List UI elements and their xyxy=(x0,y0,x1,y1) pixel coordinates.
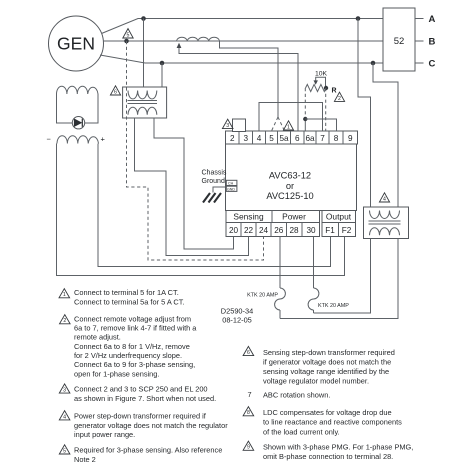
wire breaker stub A xyxy=(415,18,424,20)
node CH GND terminal boxes xyxy=(226,180,237,191)
svg-text:4: 4 xyxy=(63,414,66,420)
svg-text:6: 6 xyxy=(247,350,250,356)
triangle note1 list marker xyxy=(59,289,70,299)
transformer power step-down T2 xyxy=(364,207,409,239)
svg-text:28: 28 xyxy=(289,226,299,235)
wire chassis ground lead xyxy=(213,187,226,193)
svg-text:Note 2: Note 2 xyxy=(74,455,96,464)
wire C-phase feed to power transformer xyxy=(373,63,398,207)
svg-text:1: 1 xyxy=(63,292,66,298)
svg-text:6: 6 xyxy=(295,134,300,143)
wire transformer secondary right to terminal 26 bus xyxy=(280,239,398,319)
svg-text:Connect 6a to 9 for 3-phase se: Connect 6a to 9 for 3-phase sensing, xyxy=(74,360,195,369)
node junction 6a xyxy=(303,117,307,121)
svg-text:24: 24 xyxy=(259,226,269,235)
node A-power tap xyxy=(356,16,361,21)
wire breaker stub B xyxy=(415,40,424,42)
node C-sense tap xyxy=(160,61,165,66)
wire breaker stub C xyxy=(415,62,424,64)
svg-text:7: 7 xyxy=(248,390,252,399)
triangle note2 marker at R xyxy=(334,92,344,102)
svg-text:4: 4 xyxy=(257,134,262,143)
wire terminal 26 to fuse xyxy=(279,237,281,289)
svg-text:open for 1-phase sensing.: open for 1-phase sensing. xyxy=(74,369,159,378)
regulator section labels Sensing Power Output xyxy=(226,211,356,223)
triangle note1 marker at CT fork xyxy=(284,121,294,131)
triangle note4 marker at power transformer xyxy=(379,193,389,203)
svg-text:to line reactance and reactive: to line reactance and reactive component… xyxy=(263,418,402,427)
svg-text:R: R xyxy=(332,88,337,95)
exciter armature winding xyxy=(57,86,99,123)
svg-text:omit B-phase connection to ter: omit B-phase connection to terminal 28. xyxy=(263,452,393,461)
transformer CT on B phase xyxy=(177,37,220,41)
regulator output terminal strip F1 F2 xyxy=(322,223,356,237)
svg-text:KTK 20 AMP: KTK 20 AMP xyxy=(247,293,278,299)
svg-text:8: 8 xyxy=(334,134,339,143)
wire dashed pot left leg to 6a xyxy=(304,88,306,119)
triangle note8 list marker xyxy=(243,407,254,417)
svg-text:Ground: Ground xyxy=(202,178,225,185)
wire CT dashed fork to 5a xyxy=(278,117,285,131)
svg-text:Connect to terminal 5a for 5 A: Connect to terminal 5a for 5 A CT. xyxy=(74,298,185,307)
diode rotating rectifier xyxy=(72,117,84,129)
svg-text:Required for 3-phase sensing.: Required for 3-phase sensing. Also refer… xyxy=(74,445,222,454)
svg-text:AVC125-10: AVC125-10 xyxy=(266,191,313,201)
wire C-phase line xyxy=(100,55,383,63)
svg-text:GEN: GEN xyxy=(57,34,95,54)
triangle note3 list marker xyxy=(59,384,70,394)
wire A sensing lead xyxy=(143,19,145,88)
wire CT lead to terminal 6 xyxy=(179,47,298,132)
link shorting jumper terminals 2-3 xyxy=(233,119,246,132)
triangle note2 list marker xyxy=(60,315,71,325)
svg-text:9: 9 xyxy=(247,445,250,451)
svg-text:+: + xyxy=(101,135,106,144)
fuse F1 KTK 20 AMP xyxy=(275,288,286,310)
svg-text:Chassis: Chassis xyxy=(202,170,227,177)
svg-text:of the load current only.: of the load current only. xyxy=(263,427,340,436)
svg-text:Connect remote voltage adjust: Connect remote voltage adjust from xyxy=(74,314,191,323)
wire field plus to F1 xyxy=(98,144,331,267)
svg-text:A: A xyxy=(429,14,436,25)
wire transformer secondary left to terminal 30 bus xyxy=(314,239,371,314)
node C-power tap xyxy=(371,61,376,66)
svg-text:generator voltage does not mat: generator voltage does not match the reg… xyxy=(74,421,228,430)
svg-text:Output: Output xyxy=(326,212,352,222)
wire CT lead to terminal 5/5a xyxy=(220,41,279,117)
wire fuse to bus xyxy=(313,310,315,313)
fuse F2 KTK 20 AMP xyxy=(308,288,319,310)
svg-text:10K: 10K xyxy=(315,71,328,78)
wire C sensing lead xyxy=(161,63,163,87)
svg-text:30: 30 xyxy=(306,226,316,235)
svg-text:Sensing step-down transformer: Sensing step-down transformer required xyxy=(263,348,395,357)
svg-text:F2: F2 xyxy=(342,226,352,235)
svg-text:Sensing: Sensing xyxy=(233,212,264,222)
wire 6a to terminal 8 xyxy=(305,119,336,131)
regulator AVC63-12 main box xyxy=(226,144,357,211)
svg-text:voltage regulator model number: voltage regulator model number. xyxy=(263,377,369,386)
svg-text:D2590-34: D2590-34 xyxy=(221,307,253,316)
svg-text:6a: 6a xyxy=(305,134,315,143)
wire dashed pot right leg to 7 xyxy=(325,88,327,131)
svg-text:52: 52 xyxy=(394,36,405,47)
svg-text:input power range.: input power range. xyxy=(74,430,135,439)
wire A-phase line xyxy=(102,19,384,34)
svg-text:3: 3 xyxy=(63,388,66,394)
ground chassis symbol xyxy=(203,193,221,203)
regulator top terminal strip 2-9 xyxy=(226,131,358,144)
svg-text:Connect 2 and 3 to SCP 250 and: Connect 2 and 3 to SCP 250 and EL 200 xyxy=(74,385,208,394)
svg-text:08-12-05: 08-12-05 xyxy=(222,316,252,325)
transformer sensing step-down T1 xyxy=(123,87,167,118)
wire B-phase line xyxy=(103,40,383,42)
triangle note4 list marker xyxy=(59,411,70,421)
svg-text:22: 22 xyxy=(244,226,254,235)
exciter field winding xyxy=(57,136,99,144)
svg-text:7: 7 xyxy=(320,134,325,143)
node B-sense tap xyxy=(124,39,129,44)
triangle note6 list marker xyxy=(243,346,254,356)
svg-text:GND: GND xyxy=(227,188,235,192)
svg-text:C: C xyxy=(429,59,436,70)
svg-text:−: − xyxy=(47,135,52,144)
wire potentiometer wiper xyxy=(316,77,326,88)
node wiper arrowhead xyxy=(314,80,318,84)
svg-text:B: B xyxy=(429,37,436,48)
svg-text:LDC compensates for voltage dr: LDC compensates for voltage drop due xyxy=(263,408,392,417)
svg-text:F1: F1 xyxy=(325,226,335,235)
svg-text:Power: Power xyxy=(282,212,306,222)
svg-text:Connect 6a to 8 for 1 V/Hz, re: Connect 6a to 8 for 1 V/Hz, remove xyxy=(74,342,190,351)
svg-text:9: 9 xyxy=(348,134,353,143)
wire terminal 30 to fuse xyxy=(313,237,315,289)
regulator bottom terminal strip 20-30 xyxy=(226,223,320,237)
svg-text:or: or xyxy=(286,181,294,191)
wire sensing secondary to terminal 20 xyxy=(154,118,234,249)
svg-text:2: 2 xyxy=(230,134,235,143)
breaker 52 xyxy=(383,8,415,71)
svg-text:KTK 20 AMP: KTK 20 AMP xyxy=(318,303,349,309)
svg-text:ABC rotation shown.: ABC rotation shown. xyxy=(263,390,330,399)
svg-text:Shown with 3-phase PMG. For 1-: Shown with 3-phase PMG. For 1-phase PMG, xyxy=(263,443,413,452)
svg-text:5a: 5a xyxy=(279,134,289,143)
svg-text:6a to 7, remove link 4-7 if fi: 6a to 7, remove link 4-7 if fitted with … xyxy=(74,324,197,333)
wire dashed B-phase sensing xyxy=(127,41,264,260)
node wiper junction xyxy=(324,86,328,90)
svg-text:5: 5 xyxy=(127,32,130,38)
svg-text:if generator voltage does not: if generator voltage does not match the xyxy=(263,357,391,366)
svg-text:1: 1 xyxy=(287,125,290,131)
wire link terminal 4 to 7 xyxy=(259,103,323,132)
svg-text:5: 5 xyxy=(269,134,274,143)
svg-text:3: 3 xyxy=(226,123,229,129)
svg-text:Connect to terminal 5 for 1A C: Connect to terminal 5 for 1A CT. xyxy=(74,288,179,297)
svg-text:5: 5 xyxy=(63,448,66,454)
triangle note9 list marker xyxy=(243,441,254,451)
generator GEN xyxy=(49,16,104,71)
svg-text:8: 8 xyxy=(247,410,250,416)
svg-text:6: 6 xyxy=(114,89,117,95)
wire A-phase feed to power transformer xyxy=(358,19,371,208)
triangle note6 marker at sensing transformer xyxy=(110,86,120,96)
wire field minus to F2 xyxy=(57,144,345,276)
resistor R 10K remote adjust xyxy=(306,84,327,91)
svg-text:remote adjust.: remote adjust. xyxy=(74,333,121,342)
node CT lead arrow xyxy=(177,43,182,48)
svg-text:sensing voltage range identifi: sensing voltage range identified by the xyxy=(263,367,389,376)
wire fuse to bus xyxy=(279,310,281,319)
svg-text:as shown in Figure 7. Short wh: as shown in Figure 7. Short when not use… xyxy=(74,394,216,403)
svg-text:AVC63-12: AVC63-12 xyxy=(269,171,311,181)
svg-text:26: 26 xyxy=(274,226,284,235)
svg-text:Power step-down transformer re: Power step-down transformer required if xyxy=(74,412,207,421)
triangle note3 marker at link xyxy=(222,119,233,129)
triangle note5 list marker xyxy=(59,445,70,455)
wire sensing secondary to terminal 22 xyxy=(135,118,249,256)
svg-text:CH: CH xyxy=(228,182,234,186)
svg-text:2: 2 xyxy=(63,318,66,324)
triangle note5 marker on B sensing xyxy=(123,29,133,39)
svg-text:4: 4 xyxy=(383,196,386,202)
svg-text:20: 20 xyxy=(229,226,239,235)
svg-text:for 2 V/Hz underfrequency slop: for 2 V/Hz underfrequency slope. xyxy=(74,351,182,360)
node A-sense tap xyxy=(141,16,146,21)
wire pot leg into 6a xyxy=(304,119,306,131)
wire CT dashed fork to 5 xyxy=(272,117,279,131)
svg-text:2: 2 xyxy=(338,96,341,102)
svg-text:3: 3 xyxy=(244,134,249,143)
